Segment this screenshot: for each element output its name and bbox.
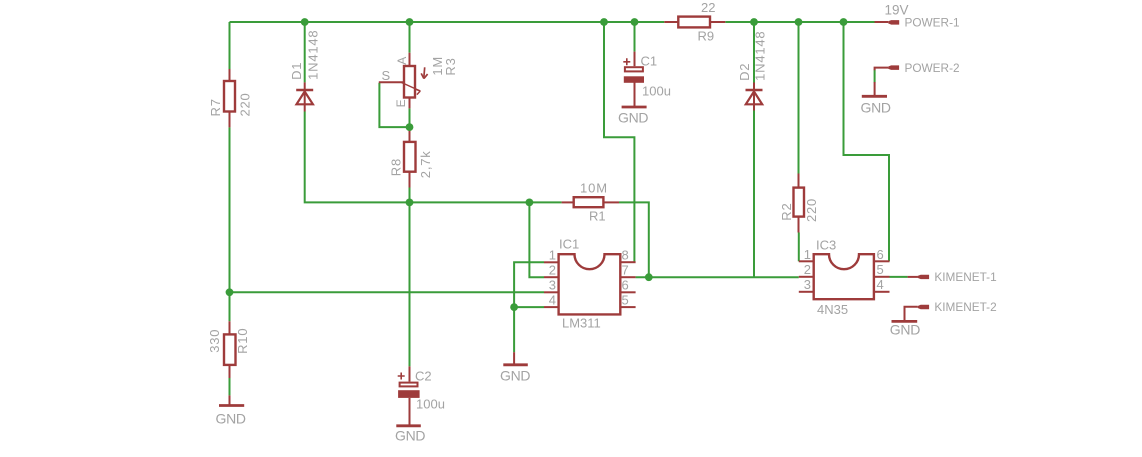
- svg-text:GND: GND: [861, 100, 891, 116]
- svg-text:2: 2: [549, 263, 556, 278]
- svg-text:3: 3: [804, 277, 811, 292]
- svg-text:KIMENET-1: KIMENET-1: [934, 270, 996, 284]
- svg-text:1: 1: [549, 248, 556, 263]
- svg-text:KIMENET-2: KIMENET-2: [934, 300, 996, 314]
- svg-text:220: 220: [804, 198, 819, 222]
- svg-text:8: 8: [622, 248, 629, 263]
- svg-text:IC1: IC1: [559, 237, 579, 252]
- svg-text:22: 22: [701, 0, 715, 15]
- svg-text:5: 5: [877, 262, 884, 277]
- svg-text:LM311: LM311: [562, 316, 601, 331]
- svg-text:1: 1: [804, 247, 811, 262]
- svg-text:R10: R10: [235, 328, 250, 354]
- svg-text:GND: GND: [500, 367, 530, 383]
- svg-text:1N4148: 1N4148: [753, 31, 768, 81]
- svg-text:6: 6: [622, 278, 629, 293]
- svg-text:10M: 10M: [580, 180, 608, 195]
- svg-text:D1: D1: [289, 62, 304, 80]
- svg-text:1N4148: 1N4148: [305, 30, 320, 80]
- svg-text:E: E: [394, 99, 408, 108]
- svg-text:POWER-1: POWER-1: [905, 16, 960, 30]
- svg-text:3: 3: [549, 278, 556, 293]
- svg-text:R7: R7: [208, 98, 223, 116]
- svg-text:330: 330: [207, 329, 222, 353]
- svg-text:GND: GND: [618, 110, 648, 126]
- svg-text:C1: C1: [641, 53, 658, 68]
- svg-text:GND: GND: [890, 322, 920, 338]
- svg-text:GND: GND: [395, 428, 425, 444]
- svg-text:POWER-2: POWER-2: [905, 61, 960, 75]
- svg-text:2,7k: 2,7k: [418, 150, 433, 178]
- svg-text:IC3: IC3: [816, 237, 836, 252]
- svg-text:100u: 100u: [416, 396, 445, 411]
- svg-text:R8: R8: [389, 158, 404, 176]
- svg-text:220: 220: [238, 92, 253, 116]
- svg-text:R3: R3: [443, 57, 458, 75]
- svg-text:R2: R2: [779, 202, 794, 220]
- svg-text:7: 7: [622, 263, 629, 278]
- svg-text:6: 6: [877, 247, 884, 262]
- svg-text:R1: R1: [589, 208, 606, 223]
- svg-text:C2: C2: [415, 368, 432, 383]
- svg-text:5: 5: [622, 293, 629, 308]
- svg-text:4: 4: [877, 277, 884, 292]
- svg-text:A: A: [395, 56, 409, 65]
- svg-text:R9: R9: [698, 29, 715, 44]
- svg-text:2: 2: [804, 262, 811, 277]
- svg-text:GND: GND: [216, 411, 246, 427]
- svg-text:4N35: 4N35: [817, 302, 848, 317]
- svg-text:D2: D2: [737, 63, 752, 81]
- svg-text:S: S: [382, 68, 391, 83]
- svg-text:4: 4: [549, 293, 556, 308]
- svg-text:100u: 100u: [642, 83, 671, 98]
